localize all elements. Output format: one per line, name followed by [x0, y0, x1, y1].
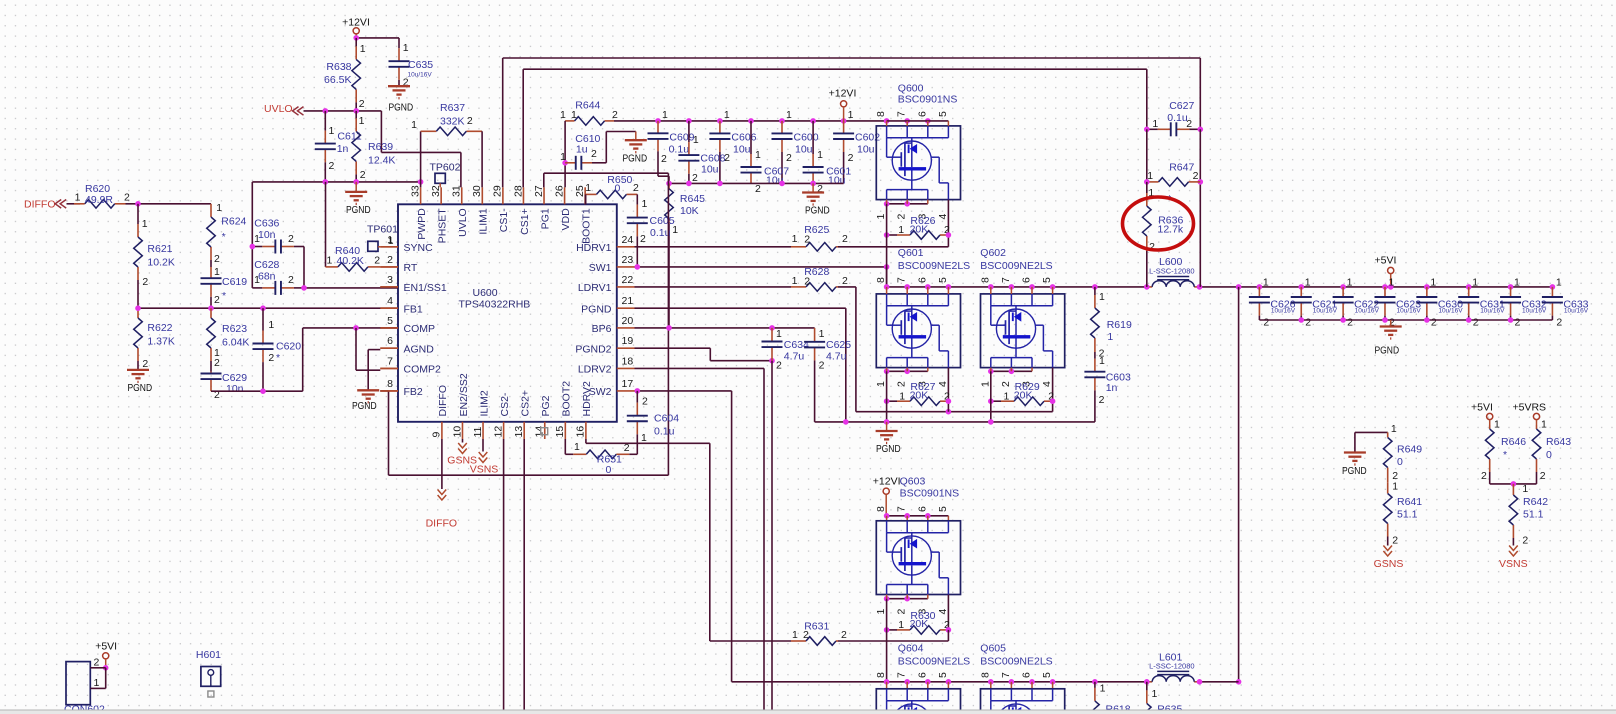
svg-text:2: 2 [1193, 170, 1199, 182]
svg-text:2: 2 [1540, 470, 1546, 482]
capacitor C605 0.1u [636, 194, 638, 204]
svg-text:10n: 10n [258, 229, 276, 241]
svg-text:10u: 10u [857, 144, 875, 156]
svg-text:2: 2 [633, 182, 639, 194]
wire CS1- sense line [502, 58, 504, 187]
svg-text:66.5K: 66.5K [324, 74, 351, 86]
wire Q601 pins to rail [886, 287, 888, 294]
svg-text:R644: R644 [575, 100, 600, 112]
svg-text:23: 23 [622, 254, 634, 266]
U600 left pin stubs overpaint [380, 246, 398, 248]
svg-text:2: 2 [642, 396, 648, 408]
svg-text:1: 1 [214, 266, 220, 278]
svg-text:332K: 332K [440, 116, 465, 128]
svg-text:HDRV2: HDRV2 [581, 381, 593, 417]
svg-text:0.1u: 0.1u [669, 144, 690, 156]
svg-text:5: 5 [937, 277, 949, 283]
wire SW1 node [635, 266, 887, 268]
resistor R647 * [1147, 181, 1159, 183]
U600 bottom pin 9 DIFFO [441, 422, 443, 439]
svg-text:1: 1 [1391, 423, 1397, 435]
wire DIFFO node to R624 [126, 203, 212, 205]
wire PG1 route [543, 173, 545, 187]
U600 right pin 20 BP6 [617, 327, 635, 329]
svg-text:TPS40322RHB: TPS40322RHB [459, 299, 531, 311]
svg-text:1: 1 [792, 629, 798, 641]
wire Q600 drain pins [884, 118, 890, 124]
svg-text:2: 2 [1305, 317, 1311, 329]
svg-text:1: 1 [1152, 118, 1158, 130]
svg-text:+5VRS: +5VRS [1513, 402, 1547, 414]
svg-text:DIFFO: DIFFO [437, 385, 449, 417]
U600 right pin 22 LDRV1 [617, 286, 635, 288]
svg-text:C605: C605 [650, 215, 675, 227]
wire R645 to BP6 [668, 224, 670, 328]
svg-text:VDD: VDD [560, 208, 572, 231]
wire output rail top y287 [1239, 286, 1553, 288]
svg-text:19: 19 [622, 335, 634, 347]
wire C636/C628 right leg to EN1/SS1 [303, 247, 305, 288]
svg-text:2: 2 [1431, 317, 1437, 329]
svg-text:+12VI: +12VI [342, 17, 370, 29]
resistor R628 (LDRV1 gate) [635, 286, 792, 288]
svg-text:1: 1 [819, 328, 825, 340]
svg-text:1: 1 [693, 134, 699, 146]
wire Q603 source row [887, 598, 928, 600]
wire Q600 gate column [947, 200, 949, 235]
svg-text:5: 5 [1041, 672, 1053, 678]
wire Q603 source to rail [886, 599, 888, 682]
wire Q603 gate column [947, 595, 949, 630]
svg-text:1: 1 [1541, 419, 1547, 431]
resistor R650 0 [585, 194, 587, 204]
svg-text:1: 1 [1305, 277, 1311, 289]
svg-text:1: 1 [642, 198, 648, 210]
svg-text:PG1: PG1 [539, 208, 551, 229]
svg-text:6: 6 [916, 506, 928, 512]
svg-text:PG2: PG2 [540, 395, 552, 416]
resistor R619 1 [1094, 287, 1096, 295]
svg-text:8: 8 [979, 277, 991, 283]
highlight ellipse around R636 [1123, 197, 1194, 250]
svg-text:+12VI: +12VI [873, 476, 901, 488]
wire Q602 pins to rail [990, 287, 992, 294]
svg-text:BOOT1: BOOT1 [580, 208, 592, 244]
svg-text:+5VI: +5VI [1375, 255, 1397, 267]
net arrow DIFFO (pin9) [441, 439, 443, 489]
svg-text:10u/16V: 10u/16V [1355, 308, 1380, 315]
resistor R625 (HDRV1 gate) [635, 246, 792, 248]
svg-text:6.04K: 6.04K [222, 337, 249, 349]
svg-text:10u/16V: 10u/16V [1480, 308, 1505, 315]
svg-text:R639: R639 [368, 141, 393, 153]
svg-text:0: 0 [1397, 456, 1403, 468]
wire output rail bottom y320 [1259, 319, 1552, 321]
svg-text:12.4K: 12.4K [368, 155, 395, 167]
svg-text:H601: H601 [196, 649, 221, 661]
wire LDRV2 route down [635, 367, 765, 369]
svg-text:2: 2 [1347, 317, 1353, 329]
wire C603 to ground rail [1094, 397, 1096, 422]
U600 left pin 1 SYNC [380, 246, 398, 248]
svg-text:2: 2 [214, 357, 220, 369]
svg-text:1: 1 [327, 255, 333, 267]
svg-text:BP6: BP6 [592, 323, 612, 335]
svg-text:1.37K: 1.37K [147, 336, 174, 348]
svg-text:1: 1 [329, 125, 335, 137]
svg-text:6: 6 [916, 111, 928, 117]
U600 right pin 21 PGND [617, 307, 635, 309]
svg-text:R619: R619 [1107, 319, 1132, 331]
svg-text:33: 33 [409, 185, 421, 197]
svg-text:R647: R647 [1169, 162, 1194, 174]
ground PGND (AGND) [357, 389, 379, 391]
svg-text:FB1: FB1 [404, 304, 423, 316]
svg-text:U600: U600 [473, 287, 498, 299]
svg-text:7: 7 [1000, 672, 1012, 678]
wire Q600 source to SW1/rail [886, 204, 888, 287]
wire sense right column [1199, 129, 1201, 287]
svg-text:7: 7 [896, 111, 908, 117]
svg-text:1: 1 [875, 381, 887, 387]
svg-text:2: 2 [1099, 394, 1105, 406]
svg-text:2: 2 [786, 152, 792, 164]
net arrow GSNS (pin10) [462, 439, 464, 443]
svg-text:R641: R641 [1397, 496, 1422, 508]
capacitor C608 10u [688, 121, 690, 142]
resistor R621 10.2K [137, 204, 139, 224]
svg-text:1: 1 [724, 109, 730, 121]
svg-text:2: 2 [842, 275, 848, 287]
U600 top pin 30 ILIM1 [481, 187, 483, 204]
svg-text:BSC009NE2LS: BSC009NE2LS [898, 656, 970, 668]
capacitor C606 10u [719, 121, 721, 133]
svg-text:1: 1 [875, 214, 887, 220]
svg-text:Q603: Q603 [900, 476, 926, 488]
svg-text:BOOT2: BOOT2 [561, 381, 573, 417]
capacitor C626 10u/16V [1258, 287, 1260, 297]
capacitor C630 10u/16V [1426, 287, 1428, 297]
wire R628 to low-side gate bus [838, 286, 856, 288]
svg-text:ILIM2: ILIM2 [478, 390, 490, 416]
ground PGND (R649) [1355, 431, 1388, 433]
U600 left pin 7 COMP2 [380, 367, 398, 369]
wire C636/C628 left leg to ground bus [251, 182, 253, 288]
svg-text:R643: R643 [1546, 436, 1571, 448]
svg-text:1: 1 [817, 149, 823, 161]
U600 top pin 28 CS1+ [522, 187, 524, 204]
svg-text:10u: 10u [733, 144, 751, 156]
svg-text:2: 2 [1515, 317, 1521, 329]
svg-text:*: * [1503, 449, 1507, 461]
svg-text:PGND2: PGND2 [575, 344, 611, 356]
svg-text:1: 1 [776, 328, 782, 340]
svg-text:C627: C627 [1169, 100, 1194, 112]
resistor R641 51.1 [1387, 482, 1389, 493]
svg-text:2: 2 [1556, 317, 1562, 329]
U600 left pin 4 FB1 [380, 307, 398, 309]
svg-text:1: 1 [1099, 291, 1105, 303]
no-connect square PG2 pin14 [541, 428, 548, 435]
svg-text:4: 4 [937, 214, 949, 220]
wire SW2 node [635, 390, 732, 392]
svg-text:6: 6 [916, 277, 928, 283]
svg-text:7: 7 [896, 277, 908, 283]
svg-text:6: 6 [387, 335, 393, 347]
svg-text:17: 17 [622, 378, 634, 390]
svg-text:2: 2 [288, 233, 294, 245]
svg-text:11: 11 [472, 426, 484, 437]
svg-text:L-SSC-12080: L-SSC-12080 [1149, 266, 1194, 275]
svg-text:3: 3 [387, 274, 393, 286]
ground PGND (cap bank) [812, 183, 814, 192]
capacitor C623 10u/16V [1384, 287, 1386, 297]
svg-text:UVLO: UVLO [264, 103, 293, 115]
svg-text:10.2K: 10.2K [147, 257, 174, 269]
capacitor C619 * [210, 267, 212, 278]
capacitor C622 10u/16V [1342, 287, 1344, 297]
svg-text:68n: 68n [258, 271, 276, 283]
capacitor C632 10u/16V [1510, 287, 1512, 297]
wire R636 to L600 [1146, 251, 1148, 287]
wire Q601 source to ground rail [886, 371, 888, 422]
svg-text:1: 1 [755, 149, 761, 161]
svg-text:1: 1 [360, 43, 366, 55]
svg-text:+12VI: +12VI [829, 88, 857, 100]
svg-text:10u: 10u [795, 144, 813, 156]
svg-text:6: 6 [916, 672, 928, 678]
svg-text:1: 1 [899, 391, 905, 403]
capacitor C610 1u [565, 162, 576, 164]
svg-text:R623: R623 [222, 323, 247, 335]
svg-text:2: 2 [359, 98, 365, 110]
svg-text:VSNS: VSNS [1499, 558, 1528, 570]
resistor R643 0 [1536, 425, 1538, 429]
svg-text:C609: C609 [669, 132, 694, 144]
U600 top pin 31 UVLO [461, 187, 463, 204]
svg-text:26: 26 [553, 185, 565, 197]
svg-text:L-SSC-12080: L-SSC-12080 [1149, 662, 1194, 671]
svg-text:4: 4 [1041, 381, 1053, 387]
U600 top pin 29 CS1- [502, 187, 504, 204]
capacitor C609 0.1u [657, 121, 659, 133]
resistor R639 12.4K [355, 111, 357, 119]
resistor R637 332K [420, 131, 422, 182]
svg-text:1n: 1n [337, 143, 349, 155]
svg-text:PGND: PGND [346, 204, 371, 216]
svg-text:1: 1 [898, 619, 904, 631]
svg-text:PGND: PGND [876, 443, 901, 455]
svg-text:1: 1 [411, 119, 417, 131]
U600 right pin 17 SW2 [617, 390, 635, 392]
svg-text:2: 2 [124, 192, 130, 204]
resistor R622 1.37K [137, 308, 139, 318]
wire cap bank ground rail y183 [669, 182, 844, 184]
svg-text:C634: C634 [784, 339, 809, 351]
svg-text:10u/16V: 10u/16V [1522, 308, 1547, 315]
svg-text:4.7u: 4.7u [784, 351, 805, 363]
net arrow GSNS [1383, 546, 1392, 551]
svg-text:R646: R646 [1501, 436, 1526, 448]
net arrow VSNS (pin11) [482, 439, 484, 452]
svg-text:2: 2 [1263, 317, 1269, 329]
svg-text:PWPD: PWPD [416, 208, 428, 240]
wire Q600 source pins [887, 203, 928, 205]
wire R631 to Q603 gate [838, 640, 948, 642]
svg-text:CS2-: CS2- [499, 392, 511, 416]
svg-text:1: 1 [388, 235, 394, 247]
svg-text:R649: R649 [1397, 444, 1422, 456]
ground PGND (C635) [388, 85, 410, 87]
svg-text:51.1: 51.1 [1523, 509, 1544, 521]
svg-text:1: 1 [1556, 277, 1562, 289]
svg-text:4: 4 [387, 295, 393, 307]
resistor R644 [565, 120, 574, 122]
svg-text:5: 5 [937, 111, 949, 117]
U600 top pin 32 PHSET [440, 187, 442, 204]
svg-text:2: 2 [848, 152, 854, 164]
svg-text:7: 7 [1000, 277, 1012, 283]
wire sense left column [1146, 129, 1148, 182]
svg-text:2: 2 [804, 276, 810, 288]
svg-text:R621: R621 [147, 243, 172, 255]
resistor R629 20K [1052, 368, 1054, 402]
svg-text:1n: 1n [1106, 382, 1118, 394]
svg-text:2: 2 [661, 153, 667, 165]
svg-text:2: 2 [896, 214, 908, 220]
svg-text:10u/16V: 10u/16V [1396, 308, 1421, 315]
wire PGND pin21 to ground rail [635, 307, 846, 309]
svg-text:7: 7 [387, 355, 393, 367]
svg-text:18: 18 [622, 355, 634, 367]
svg-text:5: 5 [387, 315, 393, 327]
svg-text:2: 2 [692, 172, 698, 184]
svg-text:C636: C636 [254, 218, 279, 230]
resistor R630 20K [887, 629, 897, 631]
svg-text:Q601: Q601 [898, 247, 924, 259]
svg-text:1: 1 [560, 151, 566, 163]
svg-text:DIFFO: DIFFO [24, 199, 56, 211]
capacitor C627 0.1u [1147, 128, 1158, 130]
U600 right pin 23 SW1 [617, 266, 635, 268]
svg-text:2: 2 [1473, 317, 1479, 329]
svg-text:2: 2 [896, 609, 908, 615]
svg-text:20K: 20K [1014, 390, 1033, 402]
svg-text:PGND: PGND [352, 400, 377, 412]
svg-text:8: 8 [875, 111, 887, 117]
wire HDRV2 route [585, 439, 587, 443]
svg-text:9: 9 [431, 432, 443, 438]
svg-text:C604: C604 [654, 413, 679, 425]
svg-text:2: 2 [329, 160, 335, 172]
svg-text:FB2: FB2 [404, 386, 423, 398]
wire +12V rail y121 [614, 120, 887, 122]
U600 top pin 26 VDD [564, 187, 566, 204]
svg-text:2: 2 [1522, 535, 1528, 547]
wire SW rail y287 [886, 267, 888, 287]
svg-text:VSNS: VSNS [470, 464, 499, 476]
svg-text:1: 1 [574, 441, 580, 453]
wire R625 to Q600 gate [838, 246, 948, 248]
wire Q602 source to ground rail [990, 371, 992, 422]
svg-text:LDRV2: LDRV2 [578, 364, 612, 376]
svg-text:21: 21 [622, 295, 634, 307]
svg-text:51.1: 51.1 [1397, 509, 1418, 521]
svg-text:1: 1 [1388, 277, 1394, 289]
svg-text:2: 2 [214, 253, 220, 265]
resistor R645 10K [668, 183, 670, 188]
U600 left pin 8 FB2 [380, 390, 398, 392]
svg-text:1: 1 [641, 432, 647, 444]
svg-text:10u: 10u [828, 175, 846, 187]
svg-text:2: 2 [803, 629, 809, 641]
capacitor C625 4.7u [814, 328, 816, 342]
svg-text:GSNS: GSNS [1374, 558, 1404, 570]
svg-text:2: 2 [142, 276, 148, 288]
svg-text:1: 1 [571, 109, 577, 121]
svg-text:1: 1 [875, 609, 887, 615]
svg-text:PGND: PGND [805, 205, 830, 217]
svg-text:2: 2 [640, 233, 646, 245]
wire R646/R643 join [1490, 483, 1537, 485]
wire R637 pin2 to ILIM1 [481, 131, 483, 187]
svg-text:2: 2 [842, 233, 848, 245]
wire ground bus y182 [252, 181, 420, 183]
capacitor C629 10n [210, 372, 212, 374]
svg-text:1: 1 [662, 109, 668, 121]
U600 right pin 18 LDRV2 [617, 367, 635, 369]
U600 bottom pin 14 PG2 [544, 422, 546, 439]
svg-text:1: 1 [1263, 277, 1269, 289]
svg-text:+5VI: +5VI [95, 641, 117, 653]
svg-text:COMP: COMP [404, 323, 436, 335]
svg-text:25: 25 [574, 185, 586, 197]
svg-text:C620: C620 [276, 341, 301, 353]
svg-text:2: 2 [804, 234, 810, 246]
svg-text:1: 1 [792, 275, 798, 287]
U600 bottom pin 11 ILIM2 [482, 422, 484, 439]
svg-text:2: 2 [214, 294, 220, 306]
svg-text:13: 13 [513, 426, 525, 438]
svg-text:1: 1 [1392, 481, 1398, 493]
capacitor C631 10u/16V [1468, 287, 1470, 297]
svg-text:R637: R637 [440, 102, 465, 114]
resistor R642 51.1 [1512, 484, 1514, 495]
wire C629/C620 bottom to COMP/COMP2 [211, 390, 303, 392]
svg-text:PGND: PGND [128, 382, 153, 394]
svg-text:1: 1 [585, 182, 591, 194]
U600 bottom pin 10 EN2/SS2 [461, 422, 463, 439]
svg-text:C628: C628 [254, 259, 279, 271]
svg-text:C619: C619 [222, 276, 247, 288]
svg-text:1: 1 [898, 224, 904, 236]
svg-text:2: 2 [94, 657, 100, 669]
svg-text:2: 2 [896, 381, 908, 387]
svg-text:8: 8 [875, 277, 887, 283]
wire VDD pin26 column [564, 121, 566, 187]
resistor R651 0 (BOOT2) [564, 439, 566, 454]
svg-text:1: 1 [1472, 277, 1478, 289]
svg-text:ILIM1: ILIM1 [478, 208, 490, 234]
svg-text:Q602: Q602 [980, 247, 1006, 259]
U600 top pin 33 PWPD [420, 187, 422, 204]
svg-text:BSC009NE2LS: BSC009NE2LS [898, 260, 970, 272]
svg-text:UVLO: UVLO [457, 208, 469, 237]
resistor R635 [1146, 682, 1148, 691]
wire C609 bottom jog [657, 151, 659, 176]
svg-text:LDRV1: LDRV1 [578, 282, 612, 294]
svg-text:0: 0 [615, 183, 621, 195]
